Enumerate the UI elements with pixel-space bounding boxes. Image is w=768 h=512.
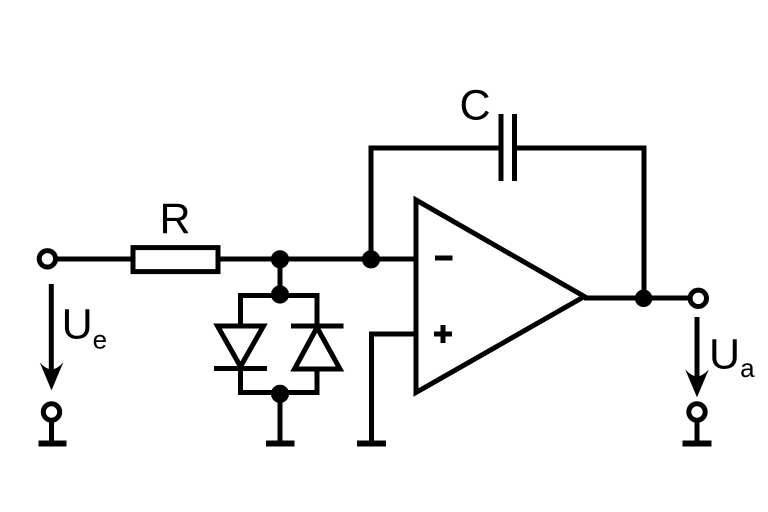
output terminal	[690, 290, 706, 306]
svg-text:R: R	[159, 195, 190, 243]
ground (diode pair)	[266, 441, 295, 447]
wire: feedback vertical + top rail to capacitor	[371, 148, 499, 259]
wire: diode top rail	[241, 296, 318, 327]
junction node: feedback/inverting input	[364, 253, 377, 266]
wire: non-inverting input to ground	[372, 334, 417, 441]
wire: op-amp output	[584, 296, 688, 301]
wire: diode bottom rail	[241, 369, 318, 393]
junction node: diode top rail	[273, 288, 286, 301]
wire: diode pair to ground	[278, 393, 283, 442]
arrow Ue	[40, 284, 64, 390]
capacitor C	[501, 114, 515, 181]
op-amp minus sign	[435, 256, 453, 261]
arrow Ua	[685, 317, 709, 397]
wire: node down to diode pair	[278, 259, 283, 296]
wire: capacitor to right vertical, down to output	[517, 148, 644, 298]
resistor R	[133, 248, 218, 272]
ground (non-inverting input)	[357, 441, 386, 447]
wire: resistor to op-amp inverting input	[220, 257, 416, 262]
wire: input terminal to resistor	[58, 257, 133, 262]
diode D2 (right, pointing up)	[291, 326, 344, 369]
op-amp plus sign	[434, 325, 452, 343]
junction node: resistor/diode	[273, 253, 286, 266]
terminal post (Ua minus)	[683, 404, 712, 444]
input terminal	[39, 251, 55, 267]
junction node: diode bottom rail	[273, 387, 286, 400]
op-amp U1	[416, 200, 584, 393]
terminal post (Ue minus)	[39, 404, 67, 444]
diode D1 (left, pointing down)	[214, 326, 267, 393]
svg-text:C: C	[459, 82, 490, 130]
junction node: output/feedback	[637, 292, 650, 305]
